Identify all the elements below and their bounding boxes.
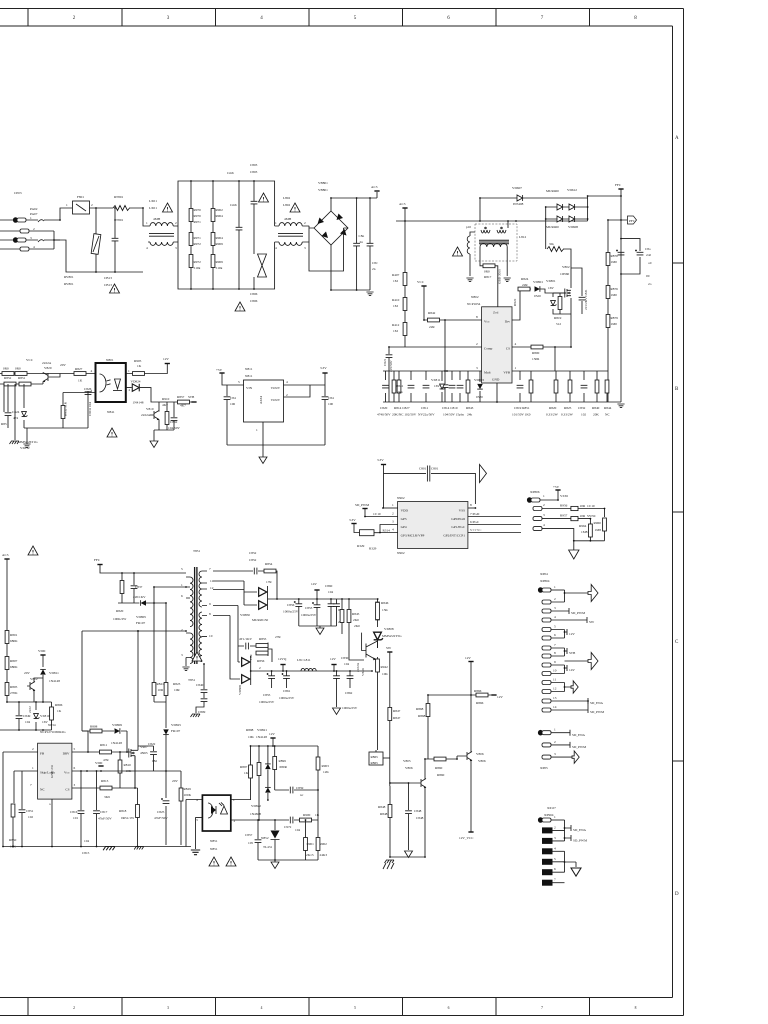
- svg-text:SD_PWM: SD_PWM: [571, 611, 585, 615]
- R860: [425, 756, 457, 759]
- svg-text:2o: 2o: [648, 282, 652, 286]
- R942 10K: [377, 657, 379, 660]
- svg-text:SW: SW: [386, 646, 392, 650]
- svg-text:C848: C848: [414, 809, 422, 813]
- svg-text:N802: N802: [471, 295, 479, 299]
- svg-text:104: 104: [84, 839, 89, 843]
- svg-text:1000u/25V: 1000u/25V: [283, 610, 299, 614]
- svg-text:R866: R866: [476, 701, 484, 705]
- svg-text:N851: N851: [210, 839, 218, 843]
- svg-text:102: 102: [28, 815, 33, 819]
- lower-left cluster: [24, 391, 96, 428]
- big arrow 1: [588, 585, 598, 602]
- svg-text:SD_ENA: SD_ENA: [573, 828, 587, 832]
- svg-text:1M0: 1M0: [611, 322, 618, 326]
- svg-text:17R: 17R: [266, 580, 272, 584]
- svg-text:C806: C806: [250, 292, 258, 296]
- svg-text:C848: C848: [416, 816, 424, 820]
- svg-text:14V: 14V: [311, 582, 317, 586]
- PFC rail: [618, 188, 623, 190]
- svg-text:10R: 10R: [158, 688, 164, 692]
- svg-text:9: 9: [554, 660, 556, 664]
- svg-text:10 10: 10 10: [373, 512, 381, 516]
- Comp line: [389, 346, 482, 348]
- svg-text:R903: R903: [322, 764, 330, 768]
- svg-text:C840: C840: [196, 683, 204, 687]
- GND rail: [383, 383, 621, 402]
- svg-text:R410: R410: [392, 298, 400, 302]
- ground under transformer: [185, 658, 187, 667]
- R960: [603, 518, 607, 531]
- VFB line: [512, 370, 608, 372]
- svg-text:R844: R844: [604, 406, 612, 410]
- C824 474: [5, 413, 12, 416]
- node X vertical: [545, 207, 547, 249]
- svg-text:N852: N852: [261, 836, 269, 840]
- DRV line R811: [72, 751, 131, 753]
- fuse F801: [73, 201, 90, 214]
- svg-text:N902: N902: [397, 551, 405, 555]
- svg-text:GP4: GP4: [401, 525, 407, 529]
- resistor R8a 0R0: [2, 372, 14, 376]
- svg-text:C819 R851: C819 R851: [514, 406, 530, 410]
- svg-text:0.33/2W: 0.33/2W: [561, 413, 574, 417]
- svg-text:510k: 510k: [216, 266, 223, 270]
- svg-text:20V: 20V: [24, 671, 30, 675]
- svg-text:0R0: 0R0: [484, 270, 490, 274]
- svg-text:VSS: VSS: [459, 509, 465, 513]
- svg-text:3: 3: [304, 246, 306, 250]
- svg-text:104: 104: [295, 828, 300, 832]
- svg-text:VD850: VD850: [240, 613, 250, 617]
- svg-text:0520: 0520: [476, 395, 483, 399]
- svg-text:R855: R855: [259, 637, 267, 641]
- node wire: [7, 701, 52, 703]
- svg-text:1000u/25V: 1000u/25V: [342, 706, 358, 710]
- svg-text:27R: 27R: [275, 635, 281, 639]
- output caps: [621, 239, 640, 274]
- svg-text:105: 105: [248, 841, 253, 845]
- svg-text:VCC: VCC: [26, 358, 34, 362]
- svg-text:16V: 16V: [434, 384, 440, 388]
- svg-text:680K: 680K: [10, 665, 18, 669]
- ground L812 right: [506, 255, 508, 276]
- zener VZ808: [374, 632, 383, 640]
- svg-text:FR107: FR107: [171, 729, 181, 733]
- top ruler bar: [0, 9, 684, 27]
- svg-text:12: 12: [553, 687, 557, 691]
- svg-text:5: 5: [354, 1006, 356, 1010]
- svg-text:AZ34: AZ34: [259, 396, 263, 404]
- svg-text:R897: R897: [240, 765, 248, 769]
- svg-text:+5V: +5V: [553, 485, 560, 489]
- cap C811a: [369, 198, 371, 290]
- R848: [388, 805, 392, 818]
- bridge - output: [331, 245, 370, 290]
- emitter to ground: [154, 430, 174, 441]
- vcc filter vertical: [444, 320, 446, 402]
- svg-text:510k: 510k: [194, 266, 201, 270]
- R818 0R51: [135, 788, 138, 847]
- svg-text:2222A: 2222A: [356, 662, 360, 672]
- svg-text:3: 3: [392, 520, 394, 524]
- transistor V820: [43, 373, 48, 383]
- svg-text:5: 5: [554, 625, 556, 629]
- svg-text:10R: 10R: [174, 688, 180, 692]
- clamp R820: [121, 573, 123, 603]
- svg-text:R868: R868: [418, 714, 426, 718]
- svg-text:R314: R314: [383, 529, 391, 533]
- svg-text:C837: C837: [135, 585, 143, 589]
- svg-text:VZ36: VZ36: [560, 494, 568, 498]
- svg-text:R407: R407: [392, 273, 400, 277]
- svg-text:R971: R971: [194, 236, 202, 240]
- svg-text:1: 1: [128, 369, 130, 373]
- svg-text:R857: R857: [177, 395, 185, 399]
- svg-text:7: 7: [541, 1006, 543, 1010]
- svg-text:R820: R820: [549, 406, 557, 410]
- wire RT to choke: [129, 208, 148, 226]
- svg-text:3: 3: [554, 752, 556, 756]
- switch contacts: [38, 220, 44, 242]
- C862b: [349, 671, 351, 688]
- svg-text:GP3/MCLR/VPP: GP3/MCLR/VPP: [401, 534, 425, 538]
- svg-text:VFB: VFB: [503, 371, 510, 375]
- svg-text:R805: R805: [10, 685, 18, 689]
- svg-text:104: 104: [344, 662, 349, 666]
- svg-text:R825: R825: [564, 406, 572, 410]
- svg-text:RV801: RV801: [64, 275, 74, 279]
- svg-text:SD_PWM: SD_PWM: [590, 710, 604, 714]
- regulator box: [244, 380, 284, 422]
- svg-text:N811: N811: [245, 367, 253, 371]
- inductor L812 dashed box: [475, 224, 517, 261]
- C856: [298, 599, 300, 626]
- svg-text:R909: R909: [216, 242, 224, 246]
- svg-text:C816: C816: [70, 810, 78, 814]
- svg-text:R866: R866: [474, 689, 482, 693]
- svg-text:R806: R806: [55, 703, 63, 707]
- C859: [275, 789, 318, 791]
- svg-text:4: 4: [286, 380, 288, 384]
- svg-text:2: 2: [554, 597, 556, 601]
- bridge VB801: [314, 211, 348, 245]
- svg-text:R898: R898: [246, 728, 254, 732]
- svg-text:1: 1: [30, 216, 32, 220]
- svg-text:10 10: 10 10: [587, 504, 595, 508]
- svg-text:GND: GND: [492, 378, 500, 382]
- svg-text:1M8: 1M8: [595, 528, 602, 532]
- svg-text:Drv: Drv: [505, 320, 511, 324]
- svg-text:R972: R972: [194, 242, 202, 246]
- svg-text:13: 13: [553, 696, 557, 700]
- svg-text:R807: R807: [10, 659, 18, 663]
- svg-text:VD811: VD811: [49, 671, 59, 675]
- svg-text:CB13: CB13: [104, 283, 112, 287]
- svg-text:o0: o0: [648, 261, 652, 265]
- svg-text:12V: 12V: [465, 656, 471, 660]
- R857 STB: [158, 401, 194, 403]
- right margin column: [683, 9, 685, 1016]
- svg-text:NCP1654: NCP1654: [467, 302, 481, 306]
- svg-text:C825: C825: [157, 810, 165, 814]
- bottom component row: [385, 371, 387, 402]
- svg-text:CS: CS: [65, 788, 69, 792]
- svg-text:3.3V: 3.3V: [349, 518, 356, 522]
- svg-text:R964: R964: [579, 524, 587, 528]
- svg-text:2: 2: [286, 393, 288, 397]
- resistor R8b 0R0: [15, 372, 27, 376]
- svg-text:F801: F801: [77, 195, 84, 199]
- svg-text:20V: 20V: [172, 779, 178, 783]
- svg-text:GP1/PGC: GP1/PGC: [451, 525, 465, 529]
- svg-text:R852 51R: R852 51R: [64, 401, 68, 416]
- snubber 4T1/1KV R855 R856: [213, 606, 272, 663]
- grounds: [390, 856, 425, 858]
- svg-text:STB: STB: [188, 395, 195, 399]
- pin 3 SD_PWM: [542, 609, 551, 613]
- svg-text:VDD: VDD: [95, 761, 103, 765]
- C8d cap: [324, 385, 326, 445]
- warning triangle at L802: [290, 203, 300, 212]
- svg-text:MUR460: MUR460: [546, 225, 559, 229]
- svg-text:SW: SW: [589, 620, 595, 624]
- svg-text:N811: N811: [245, 374, 253, 378]
- top rail: [251, 745, 319, 747]
- svg-text:1: 1: [515, 366, 517, 370]
- diodes MUR460 VD612: [546, 206, 588, 208]
- IC gnd pin: [51, 799, 53, 846]
- VDD wire: [384, 507, 398, 509]
- opto pin1 wire: [231, 799, 251, 801]
- svg-text:4MH: 4MH: [284, 217, 292, 221]
- thermistor RT801: [113, 206, 130, 211]
- svg-text:221/2KV C831: 221/2KV C831: [584, 289, 588, 310]
- svg-text:4: 4: [146, 246, 148, 250]
- svg-text:L812: L812: [519, 235, 526, 239]
- svg-text:R819: R819: [554, 316, 562, 320]
- svg-text:101: 101: [73, 816, 78, 820]
- svg-text:8: 8: [470, 503, 472, 507]
- svg-text:R902: R902: [320, 842, 328, 846]
- 12V_VCC: [468, 831, 473, 833]
- svg-text:3: 3: [554, 606, 556, 610]
- svg-text:0R51/1W: 0R51/1W: [121, 816, 135, 820]
- svg-text:1: 1: [554, 815, 556, 819]
- R827 1K: [52, 374, 96, 378]
- svg-text:C857: C857: [245, 833, 253, 837]
- warning triangle upper: [259, 193, 269, 202]
- R817 0R0: [480, 255, 498, 307]
- svg-text:2222: 2222: [28, 706, 32, 713]
- svg-text:104/50V: 104/50V: [168, 426, 180, 430]
- svg-text:102: 102: [581, 413, 586, 417]
- zigzag to drain: [547, 247, 564, 252]
- svg-text:NC: NC: [40, 788, 45, 792]
- svg-text:R971: R971: [194, 220, 202, 224]
- svg-text:47uF/50V: 47uF/50V: [154, 816, 168, 820]
- svg-text:1000u/25V: 1000u/25V: [301, 613, 317, 617]
- cap C831: [571, 268, 582, 314]
- svg-text:C814 C810: C814 C810: [442, 406, 458, 410]
- warning triangle near CB13: [110, 284, 120, 293]
- svg-text:5: 5: [238, 380, 240, 384]
- divider wire: [0, 383, 43, 385]
- gnd: [574, 541, 605, 550]
- svg-text:100K: 100K: [184, 793, 192, 797]
- svg-text:Mult: Mult: [484, 371, 491, 375]
- svg-text:MMSZ26T1G: MMSZ26T1G: [18, 440, 38, 444]
- svg-text:10K: 10K: [382, 672, 388, 676]
- bottom rail: [3, 846, 191, 848]
- svg-text:1: 1: [32, 766, 34, 770]
- svg-text:TL431: TL431: [263, 845, 273, 849]
- svg-text:4: 4: [392, 528, 394, 532]
- svg-text:C801: C801: [431, 467, 439, 471]
- svg-text:C820: C820: [380, 406, 388, 410]
- pins 5,6 12V: [542, 628, 551, 632]
- svg-text:4N65: 4N65: [140, 751, 148, 755]
- svg-text:30s: 30s: [549, 242, 554, 246]
- svg-text:C821: C821: [383, 358, 387, 366]
- CS line R800: [512, 347, 571, 371]
- svg-text:PA02: PA02: [30, 207, 38, 211]
- svg-text:4: 4: [196, 798, 198, 802]
- svg-text:D: D: [675, 892, 679, 897]
- svg-text:100K/2W: 100K/2W: [113, 617, 127, 621]
- svg-text:5: 5: [181, 567, 183, 571]
- VD824 1N4148: [126, 388, 158, 402]
- C821: [388, 347, 390, 402]
- svg-text:1: 1: [181, 583, 183, 587]
- svg-text:101/50V 1K0: 101/50V 1K0: [512, 413, 531, 417]
- svg-text:0.33/2W: 0.33/2W: [546, 413, 559, 417]
- svg-text:1N4148: 1N4148: [256, 735, 267, 739]
- svg-text:R824: R824: [521, 277, 529, 281]
- svg-text:VD608: VD608: [568, 225, 578, 229]
- svg-text:2: 2: [392, 512, 394, 516]
- connector pin 3: [13, 237, 26, 243]
- pin 14 SD_PWM: [542, 708, 551, 712]
- svg-text:220/1KV: 220/1KV: [133, 595, 146, 599]
- svg-text:RV801: RV801: [64, 282, 74, 286]
- svg-text:20V: 20V: [60, 363, 66, 367]
- svg-text:1M: 1M: [393, 279, 398, 283]
- warning triangle top-left: [28, 546, 38, 555]
- CS line R813: [72, 756, 135, 788]
- cap C803: [253, 181, 255, 254]
- svg-text:GBD 301S: GBD 301S: [498, 269, 502, 284]
- svg-text:CS: CS: [506, 347, 510, 351]
- svg-text:R329: R329: [357, 544, 365, 548]
- svg-text:1M: 1M: [393, 329, 398, 333]
- pin 13 SD_ENA: [542, 699, 551, 703]
- svg-text:VB801: VB801: [318, 181, 328, 185]
- svg-text:1: 1: [554, 728, 556, 732]
- svg-text:C855: C855: [263, 693, 271, 697]
- svg-text:3: 3: [167, 1006, 169, 1010]
- svg-text:T831: T831: [188, 678, 195, 682]
- svg-text:R808: R808: [90, 725, 98, 729]
- svg-text:2: 2: [129, 388, 131, 392]
- VD825 FR107: [165, 702, 167, 728]
- svg-text:4: 4: [543, 523, 545, 527]
- svg-text:VD809: VD809: [112, 723, 122, 727]
- primary pin1 wire: [154, 587, 186, 683]
- diode VD607: [517, 195, 523, 201]
- FB wire: [3, 752, 38, 847]
- svg-text:AC3: AC3: [399, 202, 406, 206]
- IC N902: [398, 502, 468, 549]
- svg-text:VDD: VDD: [401, 509, 409, 513]
- svg-text:47R: 47R: [103, 758, 109, 762]
- svg-text:4: 4: [91, 369, 93, 373]
- svg-text:14: 14: [553, 705, 557, 709]
- svg-text:R800: R800: [532, 351, 540, 355]
- svg-text:6: 6: [554, 867, 556, 871]
- svg-text:1: 1: [256, 428, 258, 432]
- svg-text:R852: R852: [4, 376, 12, 380]
- svg-text:RT801: RT801: [114, 195, 124, 199]
- dual diode VD850 MUR20150: [213, 581, 257, 605]
- svg-text:Comp: Comp: [484, 347, 493, 351]
- svg-text:R801: R801: [10, 633, 18, 637]
- svg-text:1: 1: [392, 503, 394, 507]
- svg-text:20K/NC 102/50V: 20K/NC 102/50V: [392, 413, 417, 417]
- ground main: [617, 404, 624, 408]
- svg-text:R841: R841: [396, 384, 404, 388]
- svg-text:N841: N841: [107, 410, 115, 414]
- svg-text:R960: R960: [594, 521, 602, 525]
- svg-text:C832: C832: [578, 406, 586, 410]
- svg-text:2: 2: [33, 227, 35, 231]
- svg-text:C806: C806: [250, 299, 258, 303]
- svg-text:12K: 12K: [323, 770, 329, 774]
- svg-text:106: 106: [230, 402, 235, 406]
- cap CB13: [114, 208, 116, 272]
- svg-text:GP0/PGD: GP0/PGD: [451, 517, 465, 521]
- svg-text:R854: R854: [265, 562, 273, 566]
- svg-text:R902: R902: [216, 208, 224, 212]
- svg-text:V802: V802: [562, 265, 570, 269]
- svg-text:R827: R827: [75, 367, 83, 371]
- transistor V830: [362, 633, 378, 660]
- svg-text:12V: 12V: [269, 732, 275, 736]
- svg-text:VDD: VDD: [38, 649, 46, 653]
- svg-text:1K: 1K: [137, 364, 142, 368]
- IC NCP1654: [482, 307, 512, 383]
- svg-text:C856: C856: [287, 603, 295, 607]
- Skip wire, R850, C851: [14, 771, 38, 803]
- svg-text:4: 4: [554, 846, 556, 850]
- svg-text:8: 8: [635, 1006, 637, 1010]
- svg-text:VD821: VD821: [257, 728, 267, 732]
- svg-text:22R: 22R: [522, 283, 528, 287]
- clamp diode VD805: [141, 600, 146, 606]
- svg-text:1000u/25V: 1000u/25V: [279, 696, 295, 700]
- pins 9,10 14V: [542, 663, 551, 667]
- svg-text:082: 082: [152, 759, 157, 763]
- svg-text:R905: R905: [134, 359, 142, 363]
- C853: [316, 599, 318, 626]
- svg-text:14V: 14V: [569, 668, 575, 672]
- svg-text:C84: C84: [328, 396, 334, 400]
- svg-text:0520: 0520: [534, 294, 541, 298]
- svg-text:R970: R970: [194, 208, 202, 212]
- TVS bowtie: [258, 254, 267, 277]
- svg-text:3: 3: [181, 653, 183, 657]
- C848: [390, 783, 409, 850]
